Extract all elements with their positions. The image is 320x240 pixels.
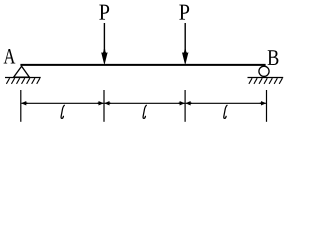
ground line at A [5, 77, 41, 79]
span length label l3 [224, 105, 227, 118]
dimension line span 2 [104, 101, 185, 106]
node A label [4, 49, 16, 64]
span length label l1 [61, 105, 64, 118]
dimension extension tick 1 [20, 90, 22, 122]
dimension extension tick 2 [103, 90, 105, 122]
dimension extension tick 4 [266, 90, 268, 122]
load P1 label [99, 5, 109, 20]
load P2 arrow [182, 23, 189, 65]
roller support at B [259, 66, 269, 76]
load P2 label [179, 5, 189, 20]
node B label [268, 50, 279, 65]
load P1 arrow [101, 23, 108, 65]
span length label l2 [143, 105, 146, 118]
dimension extension tick 3 [184, 90, 186, 122]
beam AB [20, 64, 265, 66]
dimension line span 3 [185, 101, 266, 106]
hatching at B [249, 78, 283, 84]
ground line at B [248, 77, 284, 79]
dimension line span 1 [21, 101, 104, 106]
hatching at A [6, 78, 40, 84]
pin support at A [14, 66, 30, 77]
